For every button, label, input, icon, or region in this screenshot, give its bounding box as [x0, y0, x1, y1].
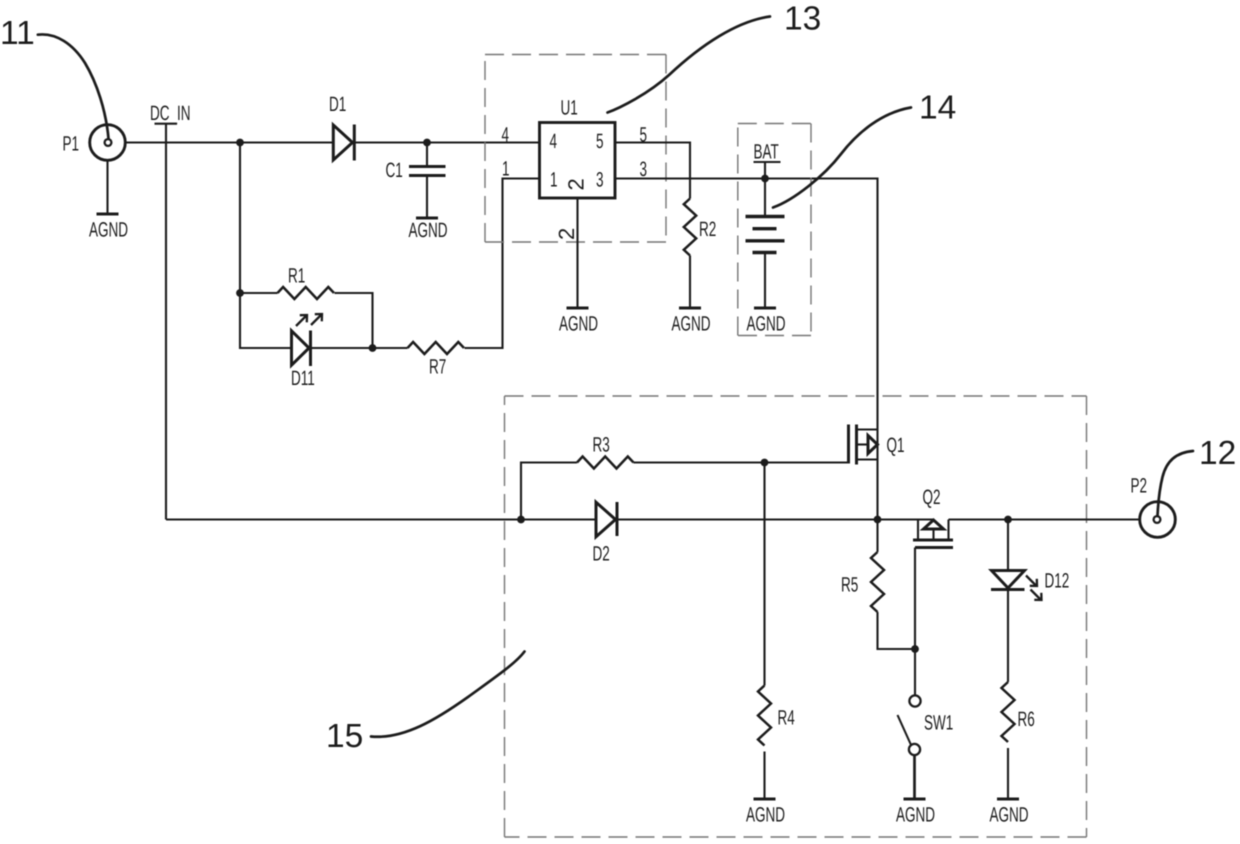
svg-text:12: 12: [1199, 435, 1236, 472]
wire Q1 source down to R5: [876, 520, 878, 553]
svg-text:D11: D11: [291, 367, 315, 390]
node junction rail/R3: [517, 516, 525, 524]
wire R4 to ground: [763, 752, 765, 800]
callout leader 11: [38, 34, 109, 138]
svg-text:AGND: AGND: [89, 219, 128, 242]
wire BAT to battery: [764, 162, 766, 216]
net label DC_IN: [150, 102, 191, 125]
svg-text:D2: D2: [593, 543, 610, 566]
wire R3 branch: [521, 463, 577, 520]
diode D2: [596, 502, 617, 537]
svg-text:AGND: AGND: [559, 313, 598, 336]
wire P1 to ground: [106, 161, 108, 215]
wire R5 to SW1 node: [878, 612, 916, 649]
resistor R5: [871, 552, 884, 612]
svg-text:3: 3: [596, 169, 604, 192]
ground AGND under R2: [672, 308, 711, 336]
svg-text:AGND: AGND: [896, 804, 935, 827]
callout leader 14: [773, 108, 911, 208]
ground AGND under P1: [89, 214, 128, 242]
wire lower rail right segment: [949, 518, 1140, 520]
svg-text:D1: D1: [329, 93, 346, 116]
svg-text:R6: R6: [1018, 708, 1035, 731]
dashed box 14: [738, 124, 811, 336]
wire D12 to R6: [1007, 590, 1009, 683]
capacitor C1: [409, 143, 446, 219]
svg-text:R4: R4: [778, 707, 795, 730]
svg-text:1: 1: [550, 169, 558, 192]
node junction at C1 tap: [423, 139, 431, 147]
resistor R6: [1002, 682, 1015, 742]
callout leader 12: [1158, 451, 1194, 516]
ground AGND under battery: [747, 308, 786, 336]
node junction rail/Q1/R5: [874, 516, 882, 524]
svg-text:U1: U1: [561, 97, 578, 120]
wire D11 to R7: [311, 347, 408, 349]
LED D11: [292, 314, 323, 366]
wire R3 to Q1 gate: [634, 461, 849, 463]
wire U1 pin 2 to ground: [576, 198, 578, 308]
svg-text:Q1: Q1: [887, 434, 905, 457]
node junction R3/R4: [761, 459, 769, 467]
wire top rail P1 to U1 pin 4: [126, 141, 540, 143]
node junction R1/D11/R7: [369, 344, 377, 352]
transistor Q2 (n-MOSFET, rotated): [913, 520, 953, 650]
dashed box 15: [505, 396, 1087, 837]
ground AGND under C1: [409, 218, 448, 242]
callout leader 15: [371, 652, 525, 737]
node junction BAT tap: [761, 175, 769, 183]
resistor R1: [236, 287, 372, 348]
svg-text:D12: D12: [1045, 570, 1070, 593]
svg-text:R7: R7: [429, 356, 446, 379]
battery BT: [746, 217, 785, 253]
wire rail down to LED D12: [1007, 520, 1009, 571]
callout label 11: [0, 15, 35, 52]
node junction R5/Q2 gate/SW1: [911, 645, 919, 653]
svg-text:4: 4: [502, 124, 510, 147]
svg-text:AGND: AGND: [746, 804, 785, 827]
ground AGND under SW1: [896, 799, 935, 827]
svg-text:P2: P2: [1131, 475, 1148, 498]
svg-text:15: 15: [326, 718, 363, 755]
svg-text:AGND: AGND: [747, 313, 786, 336]
wire R6 to ground: [1007, 748, 1009, 799]
diode D1: [333, 125, 354, 161]
svg-text:14: 14: [919, 90, 956, 127]
svg-text:11: 11: [0, 15, 35, 52]
resistor R4: [758, 686, 771, 746]
resistor R3: [577, 457, 633, 469]
ground AGND under R6: [990, 799, 1029, 827]
connector P2: [1140, 502, 1176, 538]
svg-text:R5: R5: [841, 574, 858, 597]
svg-text:Q2: Q2: [923, 486, 941, 509]
node junction rail/D12: [1004, 516, 1012, 524]
switch SW1: [898, 649, 921, 799]
wire R3 node down to R4: [763, 463, 765, 686]
svg-text:DC_IN: DC_IN: [150, 102, 191, 125]
LED D12: [991, 571, 1042, 601]
IC U1: [540, 123, 616, 199]
svg-text:AGND: AGND: [672, 313, 711, 336]
ground AGND under R4: [746, 799, 785, 827]
node junction at x240 top rail: [236, 139, 244, 147]
resistor R2: [684, 179, 696, 309]
wire branch down from top rail to R1/D11: [240, 143, 292, 349]
net label BAT: [754, 141, 781, 164]
wire R7 to U1 pin 1: [465, 179, 540, 349]
svg-text:R1: R1: [288, 265, 305, 288]
svg-text:5: 5: [596, 130, 604, 153]
wire U1 pin 5 to pin 3 net: [615, 143, 690, 179]
svg-text:AGND: AGND: [990, 804, 1029, 827]
transistor Q1 (p-MOSFET): [849, 425, 878, 520]
svg-text:2: 2: [564, 178, 589, 190]
svg-text:2: 2: [554, 228, 579, 240]
svg-text:4: 4: [550, 130, 558, 153]
wire battery to ground: [764, 253, 766, 309]
resistor R7: [408, 342, 464, 354]
svg-text:13: 13: [784, 1, 821, 38]
svg-text:SW1: SW1: [924, 712, 953, 735]
wire DC_IN stub down to lower rail: [165, 124, 167, 520]
wire lower rail left segment: [166, 518, 933, 520]
dashed box 13: [485, 55, 666, 243]
ground AGND under pin 2: [559, 308, 598, 336]
svg-text:P1: P1: [63, 133, 80, 156]
wire U1 pin 3 to Q1 drain: [615, 179, 878, 430]
svg-text:BAT: BAT: [754, 141, 779, 164]
svg-text:R3: R3: [593, 434, 610, 457]
svg-text:C1: C1: [386, 159, 403, 182]
svg-text:R2: R2: [699, 218, 716, 241]
connector P1: [90, 125, 126, 161]
svg-text:AGND: AGND: [409, 219, 448, 242]
svg-text:1: 1: [502, 158, 510, 181]
callout leader 13: [608, 17, 771, 113]
